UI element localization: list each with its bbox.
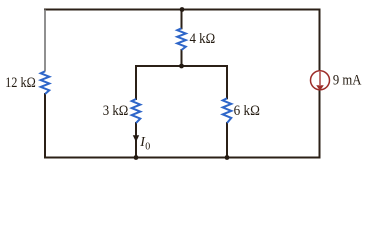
svg-text:3 kΩ: 3 kΩ bbox=[103, 103, 129, 119]
svg-text:6 kΩ: 6 kΩ bbox=[234, 103, 260, 119]
svg-text:9 mA: 9 mA bbox=[333, 73, 362, 89]
svg-text:4 kΩ: 4 kΩ bbox=[190, 31, 216, 47]
svg-text:0: 0 bbox=[145, 142, 150, 153]
svg-text:12 kΩ: 12 kΩ bbox=[5, 75, 36, 91]
